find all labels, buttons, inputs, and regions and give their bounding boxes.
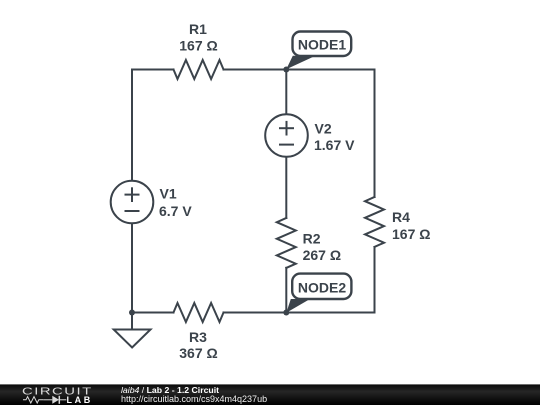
svg-text:V2: V2 xyxy=(315,120,332,136)
wire bottom left xyxy=(132,312,174,314)
svg-text:267 Ω: 267 Ω xyxy=(303,247,341,263)
svg-text:http://circuitlab.com/cs9x4m4q: http://circuitlab.com/cs9x4m4q237ub xyxy=(121,394,267,404)
logo diode xyxy=(43,399,52,401)
wire bottom right xyxy=(286,312,374,314)
wire top middle xyxy=(224,69,287,71)
node NODE2 callout box xyxy=(292,274,351,299)
ground stub xyxy=(131,313,133,330)
wire right lower xyxy=(374,247,376,313)
junction dot NODE1 xyxy=(283,67,289,73)
wire bottom middle xyxy=(224,312,287,314)
wire left upper xyxy=(131,70,133,181)
footer bar xyxy=(0,384,540,405)
svg-text:6.7 V: 6.7 V xyxy=(159,203,192,219)
voltage source V1 xyxy=(111,181,154,224)
logo resistor zigzag xyxy=(23,397,43,403)
wire middle between V2 and R2 xyxy=(285,158,287,219)
wire middle top xyxy=(285,70,287,115)
junction dot ground xyxy=(129,310,135,316)
resistor R2 xyxy=(277,218,296,268)
voltage source V2 xyxy=(265,114,308,157)
junction dot NODE2 xyxy=(283,310,289,316)
svg-text:167 Ω: 167 Ω xyxy=(392,226,430,242)
resistor R1 xyxy=(174,60,224,79)
svg-text:R3: R3 xyxy=(189,329,207,345)
svg-text:167 Ω: 167 Ω xyxy=(179,37,217,53)
node NODE1 callout box xyxy=(293,32,352,57)
wire left lower xyxy=(131,224,133,313)
resistor R3 xyxy=(174,303,224,322)
wire top-left horizontal xyxy=(132,69,174,71)
svg-text:V1: V1 xyxy=(160,186,177,202)
svg-text:367 Ω: 367 Ω xyxy=(179,345,217,361)
svg-text:R2: R2 xyxy=(303,230,321,246)
node NODE1 pointer xyxy=(286,56,315,70)
svg-text:NODE2: NODE2 xyxy=(298,280,346,296)
svg-text:1.67 V: 1.67 V xyxy=(314,137,355,153)
wire middle bottom xyxy=(285,268,287,313)
ground xyxy=(114,330,151,348)
svg-text:LAB: LAB xyxy=(67,395,93,405)
svg-text:R4: R4 xyxy=(392,209,410,225)
node NODE2 pointer xyxy=(286,299,310,313)
svg-text:NODE1: NODE1 xyxy=(298,36,346,52)
wire top right xyxy=(286,69,374,71)
resistor R4 xyxy=(365,197,384,247)
svg-text:R1: R1 xyxy=(189,21,207,37)
wire right upper xyxy=(374,70,376,198)
